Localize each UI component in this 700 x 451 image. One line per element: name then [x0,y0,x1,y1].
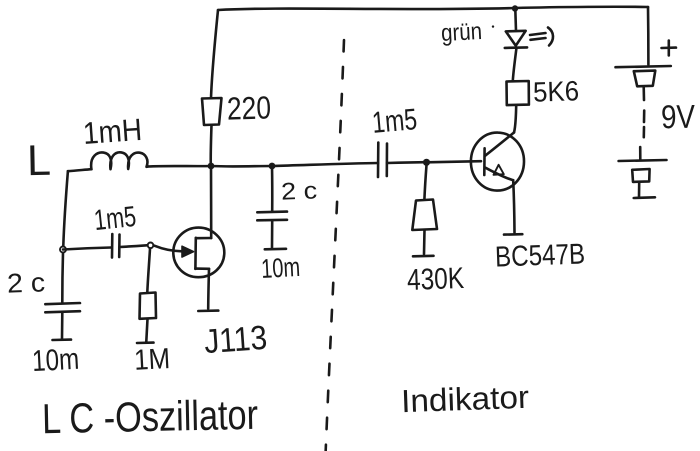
svg-text:220: 220 [226,89,271,126]
ground bar emitter [504,233,522,236]
wire bus down to battery [647,7,650,65]
svg-text:L: L [27,137,52,185]
svg-text:430K: 430K [406,262,464,297]
wire 1M to ground [146,319,147,342]
svg-text:1mH: 1mH [82,112,143,151]
wire node to gate capacitor [63,248,111,250]
svg-text:9V: 9V [661,98,696,136]
capacitor 2C 10m (left tank) [45,303,80,340]
dashed section divider [326,40,345,451]
wire 220 to drain node [209,125,212,165]
battery plus sign [662,41,677,56]
node base [423,159,430,166]
inductor L 1mH [68,152,148,171]
svg-text:2 c: 2 c [281,177,318,205]
wire emitter down to ground [513,180,514,232]
node LED tap on bus [512,5,518,11]
svg-text:1m5: 1m5 [371,103,419,140]
wire node A to node B [211,165,272,168]
transistor J113 JFET [173,166,224,309]
node B [269,163,276,170]
capacitor 1m5 (coupling) [378,143,387,178]
wire top supply bus [218,7,648,10]
wire collector up to resistor 5K6 [514,106,516,133]
capacitor 2C 10m (drain bypass) [257,212,287,250]
ground bar 1M [137,341,154,344]
transistor Q BC547B [471,133,524,191]
wire left tank vertical [63,171,68,246]
LED D grün [505,9,527,48]
resistor 1M [140,293,157,319]
battery 9V top cell [616,66,671,137]
wire coil to node A [148,165,211,168]
svg-text:10m: 10m [31,343,80,378]
resistor 430K [412,200,437,231]
svg-text:grün: grün [440,18,482,47]
svg-text:10m: 10m [260,252,301,284]
wire 430K to ground [423,230,426,254]
speck [492,25,494,27]
capacitor 1m5 (gate) [112,234,120,258]
ground bar JFET source [198,309,218,312]
wire node B down to drain bypass capacitor [271,166,274,211]
svg-text:BC547B: BC547B [495,238,586,273]
wire base node down to resistor 430K [424,165,426,200]
wire gate node to JFET gate [154,246,182,252]
svg-text:1M: 1M [133,343,171,377]
wire base node to transistor base [427,161,482,162]
resistor 5K6 [507,81,529,105]
wire coupling capacitor to base node [387,161,425,164]
wire gate node down to resistor 1M [147,249,150,293]
svg-text:1m5: 1m5 [93,201,138,237]
LED light arrow [530,28,553,46]
wire gate capacitor to gate node [120,245,148,247]
node gate (open) [148,243,154,249]
svg-text:L C -Oszillator: L C -Oszillator [42,391,259,443]
resistor R 220 [202,98,222,125]
ground bar 430K [413,255,434,258]
svg-text:J113: J113 [203,319,268,361]
node A drain node [208,163,215,170]
wire bus down to resistor 220 [211,10,218,98]
svg-text:5K6: 5K6 [533,75,580,108]
wire LED cathode to 5K6 [513,48,517,81]
node tank bottom (open) [60,247,66,253]
wire node to tank capacitor [61,253,64,302]
svg-text:Indikator: Indikator [400,379,530,419]
wire node B to coupling capacitor [272,163,378,166]
battery 9V bottom cell [619,147,667,198]
svg-text:2 c: 2 c [7,267,46,298]
